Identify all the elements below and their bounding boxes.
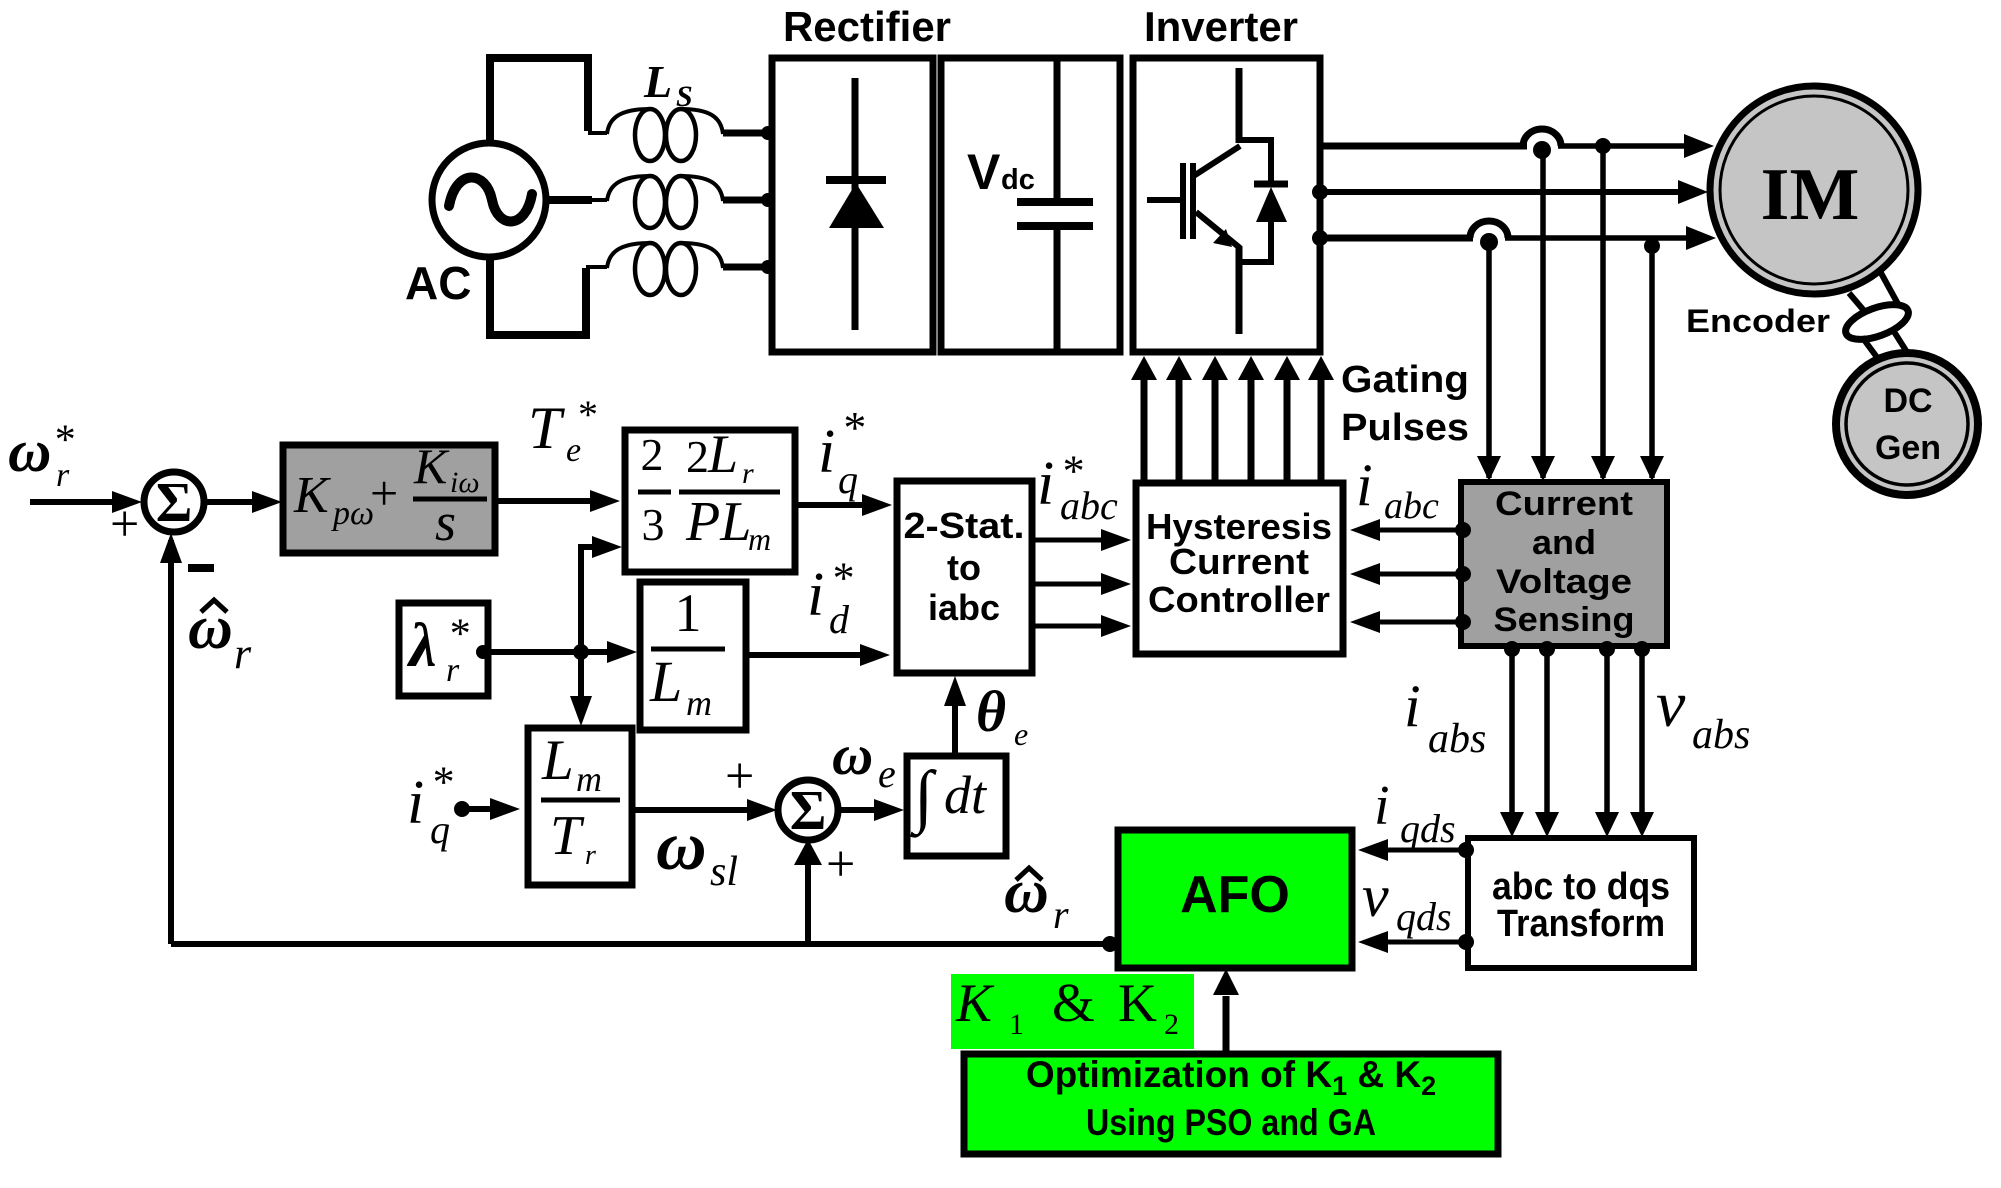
svg-text:L: L bbox=[541, 729, 574, 792]
svg-text:abs: abs bbox=[1692, 712, 1750, 758]
svg-text:λ: λ bbox=[406, 612, 437, 680]
svg-text:r: r bbox=[585, 840, 596, 871]
svg-text:r: r bbox=[56, 457, 70, 494]
svg-text:to: to bbox=[947, 547, 981, 588]
svg-text:L: L bbox=[707, 424, 738, 484]
svg-text:∫: ∫ bbox=[910, 758, 937, 838]
svg-text:q: q bbox=[838, 457, 858, 502]
svg-text:Pulses: Pulses bbox=[1341, 407, 1469, 449]
svg-text:2: 2 bbox=[1164, 1008, 1179, 1041]
svg-text:Σ: Σ bbox=[156, 472, 193, 534]
svg-text:m: m bbox=[576, 759, 602, 799]
svg-text:*: * bbox=[450, 611, 471, 657]
svg-text:r: r bbox=[446, 652, 460, 689]
svg-text:abs: abs bbox=[1428, 716, 1486, 762]
svg-text:&: & bbox=[1052, 972, 1095, 1033]
svg-text:ω: ω bbox=[832, 724, 873, 787]
svg-text:e: e bbox=[1014, 716, 1028, 752]
svg-text:e: e bbox=[566, 432, 581, 469]
svg-text:+: + bbox=[370, 465, 398, 521]
svg-text:2: 2 bbox=[686, 431, 709, 482]
svg-text:i: i bbox=[1374, 775, 1390, 837]
svg-text:1: 1 bbox=[675, 583, 702, 643]
svg-text:iabc: iabc bbox=[928, 587, 1000, 628]
svg-text:Optimization of K1 & K2: Optimization of K1 & K2 bbox=[1026, 1054, 1436, 1101]
svg-text:abc: abc bbox=[1060, 483, 1118, 528]
svg-text:+: + bbox=[725, 748, 754, 805]
svg-text:K: K bbox=[413, 438, 450, 494]
svg-text:+: + bbox=[110, 496, 139, 553]
svg-text:i: i bbox=[1356, 452, 1373, 518]
svg-text:Gating: Gating bbox=[1341, 359, 1469, 401]
svg-text:v: v bbox=[1656, 668, 1686, 741]
svg-text:L: L bbox=[643, 56, 672, 107]
svg-text:dt: dt bbox=[944, 765, 988, 825]
svg-text:qds: qds bbox=[1396, 894, 1452, 939]
svg-text:s: s bbox=[435, 492, 456, 552]
svg-text:r: r bbox=[742, 457, 754, 490]
svg-text:AFO: AFO bbox=[1180, 866, 1290, 924]
svg-text:d: d bbox=[829, 597, 850, 642]
svg-text:Current: Current bbox=[1169, 541, 1309, 582]
svg-text:T: T bbox=[550, 805, 585, 867]
svg-text:dc: dc bbox=[1001, 164, 1035, 196]
svg-text:ω: ω bbox=[656, 808, 707, 885]
svg-text:Rectifier: Rectifier bbox=[783, 3, 951, 50]
svg-text:Current: Current bbox=[1495, 485, 1633, 523]
svg-text:*: * bbox=[433, 758, 455, 807]
svg-text:PL: PL bbox=[685, 491, 751, 553]
svg-text:e: e bbox=[878, 751, 896, 796]
svg-text:V: V bbox=[967, 144, 1001, 200]
svg-text:abc: abc bbox=[1384, 485, 1439, 527]
svg-text:DC: DC bbox=[1883, 382, 1932, 420]
svg-text:T: T bbox=[528, 395, 565, 461]
svg-text:q: q bbox=[430, 807, 450, 852]
svg-text:r: r bbox=[1053, 892, 1069, 937]
svg-text:*: * bbox=[843, 402, 866, 453]
svg-text:2-Stat.: 2-Stat. bbox=[904, 505, 1025, 546]
svg-text:v: v bbox=[1362, 863, 1389, 929]
svg-text:m: m bbox=[686, 683, 712, 723]
svg-text:Σ: Σ bbox=[790, 780, 827, 842]
svg-text:Gen: Gen bbox=[1875, 429, 1941, 467]
svg-text:Inverter: Inverter bbox=[1144, 3, 1298, 50]
svg-text:K: K bbox=[955, 973, 995, 1033]
svg-text:i: i bbox=[1404, 673, 1421, 739]
svg-text:K: K bbox=[293, 467, 331, 524]
svg-text:Using PSO and GA: Using PSO and GA bbox=[1086, 1102, 1376, 1143]
svg-text:Sensing: Sensing bbox=[1494, 601, 1635, 639]
svg-text:Transform: Transform bbox=[1497, 903, 1665, 945]
svg-text:1: 1 bbox=[1009, 1008, 1024, 1041]
svg-text:+: + bbox=[826, 836, 855, 893]
svg-text:*: * bbox=[833, 554, 855, 603]
svg-text:r: r bbox=[234, 629, 252, 678]
svg-text:i: i bbox=[818, 418, 835, 486]
svg-text:AC: AC bbox=[405, 257, 471, 309]
svg-text:ω: ω bbox=[8, 418, 51, 484]
svg-text:L: L bbox=[649, 649, 682, 714]
svg-text:i: i bbox=[407, 769, 424, 837]
svg-text:3: 3 bbox=[642, 499, 665, 550]
svg-text:pω: pω bbox=[331, 495, 374, 532]
svg-text:qds: qds bbox=[1400, 806, 1456, 851]
svg-text:*: * bbox=[578, 392, 598, 437]
svg-text:m: m bbox=[748, 521, 771, 557]
svg-text:i: i bbox=[807, 561, 824, 629]
svg-text:sl: sl bbox=[710, 849, 738, 895]
svg-text:Controller: Controller bbox=[1148, 579, 1330, 620]
svg-text:Voltage: Voltage bbox=[1496, 563, 1632, 601]
svg-text:Encoder: Encoder bbox=[1686, 303, 1830, 339]
svg-text:θ: θ bbox=[976, 679, 1006, 744]
svg-text:K: K bbox=[1118, 973, 1157, 1033]
svg-text:and: and bbox=[1532, 524, 1596, 562]
svg-text:abc to dqs: abc to dqs bbox=[1492, 866, 1670, 908]
svg-text:i: i bbox=[1037, 450, 1054, 518]
svg-text:IM: IM bbox=[1761, 154, 1860, 236]
svg-text:2: 2 bbox=[641, 429, 664, 480]
